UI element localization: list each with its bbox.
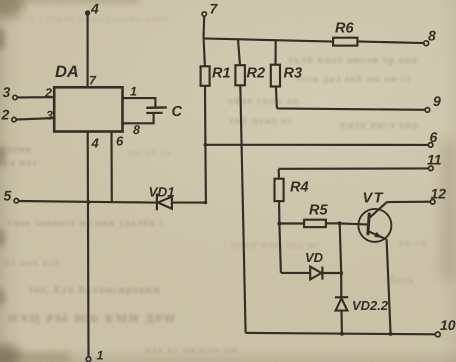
svg-text:R4: R4 (290, 180, 309, 196)
wire terminal 7 down (202, 16, 205, 38)
svg-text:8: 8 (428, 28, 436, 44)
svg-text:7: 7 (210, 1, 219, 17)
bleed-through text rows (18, 14, 171, 25)
wire terminal 3 to DA pin 2 (17, 96, 54, 98)
svg-text:7: 7 (89, 74, 97, 88)
diode VD2 (335, 296, 348, 298)
resistor R3 (274, 40, 276, 64)
terminal 9 (425, 108, 430, 113)
capacitor C (146, 106, 167, 109)
wire DA pin 6 down to VD1 net (110, 132, 112, 202)
svg-text:11: 11 (427, 152, 442, 168)
wire node down to VD1 net (204, 145, 207, 203)
bottom bus wire (246, 333, 436, 334)
svg-text:8: 8 (133, 123, 140, 137)
svg-text:5: 5 (4, 188, 12, 204)
svg-text:R2: R2 (247, 66, 266, 82)
wire DA pin 1 to capacitor C (123, 98, 156, 107)
wire VD1 anode to node (172, 202, 206, 204)
svg-text:1: 1 (97, 349, 104, 362)
svg-text:C: C (172, 104, 183, 120)
terminal 10 (435, 332, 440, 337)
wire terminal 5 to VD1 cathode (19, 201, 157, 203)
junction R4/R5 (277, 222, 281, 226)
wire node to terminal 6 (205, 144, 428, 146)
svg-text:2: 2 (1, 107, 10, 123)
wire to VD anode (281, 272, 310, 274)
diode VD1 (156, 194, 158, 211)
junction on pin 4 line (87, 200, 91, 204)
svg-text:3: 3 (46, 109, 53, 123)
junction VD1 node (204, 201, 208, 205)
wire R3 to terminal 9 (277, 108, 425, 109)
node junction (204, 143, 208, 147)
resistor R4 (278, 169, 280, 179)
terminal 7 (202, 12, 206, 16)
svg-text:DA: DA (55, 63, 79, 81)
wire to terminal 11 (279, 167, 429, 170)
wire R5 junction down to VD2 (340, 223, 342, 273)
svg-text:4: 4 (90, 1, 99, 17)
svg-text:R3: R3 (284, 66, 303, 82)
svg-text:VT: VT (363, 191, 385, 207)
left edge dark blobs (0, 28, 5, 50)
junction R5/VD2 (338, 221, 342, 225)
resistor R2 (238, 39, 240, 65)
resistor R1 (204, 38, 205, 66)
svg-text:VD2.2: VD2.2 (352, 298, 389, 313)
svg-text:1: 1 (130, 85, 137, 99)
wire terminal 4 to DA pin 7 (87, 13, 89, 88)
svg-text:R6: R6 (335, 21, 354, 37)
svg-text:9: 9 (433, 93, 441, 109)
wire VD2 anode to bottom bus (340, 311, 343, 334)
svg-text:6: 6 (116, 134, 124, 149)
terminal 8 (424, 41, 429, 46)
svg-text:3: 3 (3, 84, 11, 100)
transistor VT (358, 209, 391, 242)
junction VD/VD2 (339, 271, 343, 275)
svg-text:2: 2 (44, 86, 52, 100)
terminal 11 (429, 166, 434, 171)
svg-text:10: 10 (440, 317, 456, 333)
wire emitter down to bottom bus (387, 239, 391, 334)
IC DA box (54, 87, 122, 131)
wire R5 to VT base (340, 223, 368, 224)
terminal 12 (430, 200, 435, 205)
terminal 5 (14, 199, 18, 203)
svg-text:R1: R1 (212, 66, 231, 82)
wire R6 to terminal 8 (358, 41, 424, 43)
wire terminal 2 to DA pin 3 (16, 118, 54, 120)
wire DA pin 4 to terminal 1 (87, 132, 90, 357)
svg-text:4: 4 (91, 136, 100, 151)
svg-text:VD1: VD1 (149, 185, 175, 200)
svg-text:VD: VD (305, 250, 324, 265)
terminal 1 (86, 357, 91, 362)
terminal 6 (428, 143, 433, 148)
svg-text:6: 6 (430, 129, 438, 145)
wire R2 down to bottom bus (240, 85, 245, 333)
terminal 4 (85, 10, 90, 15)
wire DA pin 8 to capacitor C (123, 114, 154, 123)
resistor R6 (333, 38, 357, 46)
junction emitter/bottom (389, 332, 393, 336)
resistor R5 (279, 222, 304, 224)
wire R4 node down to VD (279, 224, 281, 273)
svg-text:12: 12 (431, 186, 447, 202)
wire VD cathode to VD2 column (323, 272, 342, 274)
top bus wire (203, 38, 333, 41)
diode VD (310, 267, 321, 280)
junction VD2/bottom (340, 332, 344, 336)
svg-text:R5: R5 (309, 203, 328, 219)
terminal 3 (13, 95, 17, 99)
wire collector to terminal 12 (387, 201, 431, 204)
terminal 2 (12, 117, 16, 121)
